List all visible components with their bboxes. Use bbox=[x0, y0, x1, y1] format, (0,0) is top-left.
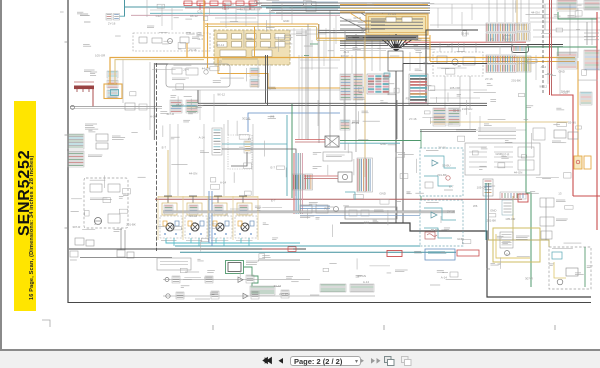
wire teal mid pair bbox=[286, 115, 288, 196]
connector stack left column bbox=[68, 134, 84, 149]
svg-text:2Y-16: 2Y-16 bbox=[274, 284, 282, 288]
svg-text:105-OR: 105-OR bbox=[95, 54, 105, 58]
svg-text:2Y-16: 2Y-16 bbox=[409, 117, 417, 121]
wire khaki x513 bbox=[512, 196, 514, 240]
pinlist box right-center bbox=[465, 143, 540, 175]
connector barrel bbox=[512, 45, 529, 53]
wire black bus y249 bbox=[69, 248, 306, 250]
page number input bbox=[290, 356, 361, 366]
module block tan top-right bbox=[366, 14, 428, 35]
junction box bbox=[388, 51, 403, 71]
button previous-page bbox=[279, 358, 284, 364]
ruler tick 3 bbox=[554, 325, 556, 330]
wire orange double bus right bbox=[317, 37, 430, 39]
svg-text:2Y-16: 2Y-16 bbox=[438, 145, 446, 149]
injector module 4 bbox=[242, 196, 244, 203]
connector ECX label bbox=[80, 13, 88, 15]
connector box right-mid bbox=[502, 200, 513, 215]
wire blue pair vertical bbox=[208, 191, 210, 243]
svg-text:13: 13 bbox=[558, 192, 562, 196]
wire teal pair top bbox=[150, 12, 340, 14]
button last-page (disabled) bbox=[371, 358, 381, 364]
svg-text:307-R: 307-R bbox=[525, 276, 533, 280]
wire cyan injector drops bbox=[165, 238, 167, 243]
svg-text:44-GN: 44-GN bbox=[531, 10, 540, 14]
wire gray horiz right top bbox=[430, 3, 600, 5]
svg-text:GND: GND bbox=[379, 192, 385, 196]
svg-text:GND: GND bbox=[495, 152, 501, 156]
wire droppers bbox=[161, 5, 163, 26]
svg-text:C12: C12 bbox=[197, 10, 203, 14]
wire orange drop right bbox=[577, 61, 579, 156]
wire gray bus y90 bbox=[172, 89, 340, 91]
wire teal bend mid bbox=[222, 143, 287, 145]
wire tan y122 right bbox=[430, 121, 568, 123]
svg-text:2Y-16: 2Y-16 bbox=[485, 77, 493, 81]
pin list right of block1 bbox=[293, 28, 295, 58]
button previous-document bbox=[0, 351, 600, 368]
red cluster verticals bbox=[199, 3, 201, 10]
wire cyan bus 2 bbox=[175, 245, 420, 247]
connector stripe horizontal right-mid bbox=[500, 192, 526, 199]
svg-text:J1-4: J1-4 bbox=[197, 37, 203, 41]
border tick y135 bbox=[65, 134, 69, 136]
component teal small y123 bbox=[340, 120, 350, 130]
wire maroon bus bbox=[155, 198, 522, 200]
wire black dashed x543 bbox=[542, 0, 544, 95]
svg-text:44-GN: 44-GN bbox=[357, 274, 366, 278]
connector teal pair below ECM bbox=[250, 68, 259, 77]
wire black bus into fan bbox=[340, 40, 390, 42]
wire pair left low bbox=[120, 228, 122, 250]
wire black bus y64 bbox=[155, 52, 241, 64]
component relay mid bbox=[338, 172, 352, 182]
harness stripe blocks right tall bbox=[357, 158, 365, 192]
module dotted box mid bbox=[228, 135, 252, 169]
svg-text:307-R: 307-R bbox=[341, 54, 349, 58]
svg-text:9X-12: 9X-12 bbox=[189, 214, 197, 218]
svg-text:55-BU: 55-BU bbox=[568, 121, 576, 125]
wire blue mid y113 bbox=[248, 113, 340, 132]
connector stacks center D bbox=[340, 74, 351, 100]
pinlist rows above bbox=[478, 127, 516, 129]
spine title SENR5252 bbox=[14, 101, 36, 311]
component boxes right column bbox=[540, 198, 554, 207]
connector stripe vertical x483 bbox=[483, 179, 493, 196]
book spine SENR5252 bbox=[14, 101, 36, 311]
wire black bend mid bbox=[222, 149, 296, 196]
wire drops to stacks A bbox=[488, 0, 490, 22]
component red box bottom 1 bbox=[387, 251, 402, 257]
wire orange main loop bbox=[110, 0, 204, 84]
svg-text:E-7: E-7 bbox=[449, 185, 454, 189]
red connector row top bbox=[184, 1, 192, 6]
component left margin bottom bbox=[70, 251, 78, 257]
svg-text:55-BU: 55-BU bbox=[442, 163, 450, 167]
border tick y228 bbox=[65, 227, 69, 229]
wire red y42 bbox=[404, 41, 526, 43]
svg-text:201-BK: 201-BK bbox=[126, 223, 136, 227]
wire teal main y7 bbox=[125, 6, 341, 8]
svg-text:44-GN: 44-GN bbox=[360, 27, 369, 31]
wire bundle diagonals bbox=[382, 13, 412, 34]
svg-text:201-BK: 201-BK bbox=[561, 90, 571, 94]
svg-text:J1-4: J1-4 bbox=[540, 65, 546, 69]
connector block right B bbox=[486, 55, 516, 64]
border tick y42 bbox=[65, 41, 69, 43]
svg-text:W6: W6 bbox=[473, 204, 478, 208]
wire red segment bottom bbox=[262, 248, 293, 250]
svg-text:55-BU: 55-BU bbox=[461, 31, 469, 35]
harness row 1 bbox=[163, 279, 310, 281]
svg-text:201-BK: 201-BK bbox=[487, 218, 497, 222]
wire vertical main x155 bbox=[153, 63, 155, 140]
svg-text:105-OR: 105-OR bbox=[477, 186, 487, 190]
wire green step path bbox=[244, 267, 259, 286]
module dashed box bottom-right bbox=[549, 247, 591, 289]
wire gray x470 bbox=[469, 76, 471, 108]
wire black x198 stub bbox=[197, 90, 199, 103]
svg-text:2Y-16: 2Y-16 bbox=[189, 48, 197, 52]
relay box mid bbox=[345, 207, 397, 219]
wire orange x430 bbox=[429, 35, 431, 61]
svg-text:201-BK: 201-BK bbox=[437, 173, 447, 177]
black frame box right of junction bbox=[426, 30, 478, 103]
wire black y63 right of box bbox=[403, 63, 487, 65]
wire blue pair low bbox=[300, 205, 330, 207]
icon page-layout 2 (disabled) bbox=[402, 357, 412, 366]
svg-text:44-GN: 44-GN bbox=[189, 171, 198, 175]
wire gray pair x299 bbox=[298, 55, 300, 139]
wire gray mid horizontals bbox=[300, 59, 340, 61]
wire blue y215 bbox=[300, 215, 420, 217]
wire black y257 bbox=[80, 257, 172, 259]
svg-text:105-OR: 105-OR bbox=[450, 86, 460, 90]
wire red pair to relay bbox=[295, 139, 325, 141]
wire tan x365 down bbox=[364, 35, 366, 177]
wire green stubs teal boxes bbox=[420, 130, 422, 148]
wire drops top-left of block bbox=[257, 7, 259, 30]
wire teal ECX branch bbox=[120, 15, 126, 17]
relay label box bbox=[323, 152, 352, 161]
wire orange left edge block1 bbox=[207, 23, 209, 68]
svg-text:C12: C12 bbox=[156, 14, 162, 18]
connector stripe column mid bbox=[212, 128, 222, 155]
injector module 1 bbox=[167, 196, 169, 203]
wire drops dashed box right bbox=[439, 43, 441, 52]
terminal grid block bbox=[367, 74, 389, 94]
toolbar bbox=[0, 351, 600, 368]
wire black double right of box bbox=[403, 44, 563, 46]
component small boxes left low bbox=[75, 238, 84, 245]
svg-text:E-7: E-7 bbox=[506, 253, 511, 257]
junction wire fan bbox=[378, 34, 414, 51]
svg-text:9X-12: 9X-12 bbox=[190, 14, 198, 18]
wire junction stem bbox=[395, 71, 397, 223]
connector stack E bbox=[433, 108, 446, 126]
injector cell separators bbox=[157, 196, 159, 240]
wire green mid bbox=[291, 104, 293, 198]
connector plugs ECX bbox=[106, 14, 112, 21]
svg-text:E-7: E-7 bbox=[271, 199, 276, 203]
connector stack mid y100 bbox=[170, 100, 182, 113]
svg-text:P2: P2 bbox=[406, 97, 410, 101]
wire bus group y24 bbox=[340, 20, 385, 22]
svg-text:A-14: A-14 bbox=[220, 181, 226, 185]
svg-text:55-BU: 55-BU bbox=[453, 109, 461, 113]
wire black x403 down bbox=[402, 64, 404, 224]
svg-text:P2: P2 bbox=[301, 5, 305, 9]
svg-text:307-R: 307-R bbox=[166, 112, 174, 116]
connector blocks right edge bbox=[557, 52, 577, 69]
svg-text:E-7: E-7 bbox=[162, 146, 167, 150]
module box dashed left bbox=[84, 178, 128, 228]
icon page-layout 1 bbox=[385, 357, 395, 366]
wire black x587 top bbox=[586, 22, 588, 45]
svg-text:P2: P2 bbox=[490, 38, 494, 42]
wire tan feeder x517 bbox=[516, 0, 518, 23]
svg-text:44-GN: 44-GN bbox=[388, 12, 397, 16]
relay K5 green loop bbox=[226, 261, 244, 274]
wire teal bend harness bbox=[345, 192, 355, 200]
svg-text:105-OR: 105-OR bbox=[505, 217, 515, 221]
svg-text:GND: GND bbox=[457, 237, 463, 241]
svg-text:A-14: A-14 bbox=[441, 275, 447, 279]
injector module 3 bbox=[217, 196, 219, 203]
module box dashed A1 bbox=[133, 33, 210, 51]
svg-text:44-GN: 44-GN bbox=[202, 67, 211, 71]
wire black pair from block1 bbox=[265, 55, 267, 103]
component box bottom-left bbox=[157, 258, 191, 270]
wire verticals center top extra bbox=[371, 40, 373, 71]
wire gray x147 top bbox=[146, 0, 148, 17]
harness row 2 bbox=[163, 295, 375, 297]
wire tan feeders bbox=[167, 150, 169, 203]
wire verticals far right top bbox=[544, 4, 546, 30]
svg-text:13: 13 bbox=[446, 44, 450, 48]
viewer left edge bbox=[0, 0, 2, 351]
svg-text:307-R: 307-R bbox=[72, 225, 80, 229]
svg-text:E-7: E-7 bbox=[271, 166, 276, 170]
connector blocks top-right corner bbox=[557, 0, 577, 11]
component small right column bbox=[554, 130, 566, 138]
micro text right column bbox=[584, 32, 599, 34]
module box tan bottom-right bbox=[493, 228, 540, 262]
wire teal harness right bbox=[340, 142, 400, 144]
svg-text:2Y-16: 2Y-16 bbox=[108, 22, 116, 26]
sheet left border bbox=[67, 0, 69, 303]
wire dark pair y129 bbox=[420, 128, 476, 130]
svg-text:307-R: 307-R bbox=[242, 116, 250, 120]
text block left margin bbox=[85, 123, 97, 125]
svg-text:55-BU: 55-BU bbox=[431, 228, 439, 232]
svg-text:210-WH: 210-WH bbox=[462, 107, 473, 111]
svg-text:9X-12: 9X-12 bbox=[216, 43, 224, 47]
wire bottom links bbox=[258, 259, 300, 261]
svg-text:A-14: A-14 bbox=[150, 114, 156, 118]
svg-text:13: 13 bbox=[224, 213, 228, 217]
wire orange step down x317 bbox=[316, 27, 318, 41]
svg-text:2Y-16: 2Y-16 bbox=[351, 121, 359, 125]
wire red far right bbox=[596, 12, 598, 230]
injector module 2 bbox=[192, 196, 194, 203]
svg-text:44-GN: 44-GN bbox=[514, 171, 523, 175]
sensor module teal dashed 2 bbox=[420, 200, 463, 246]
svg-text:P2: P2 bbox=[193, 221, 197, 225]
lamp block orange right bbox=[574, 156, 582, 169]
wire black bundle top bbox=[256, 2, 430, 4]
connector block right A bbox=[486, 23, 516, 32]
wire gray verticals harness bbox=[305, 30, 307, 139]
wire teal vertical x124 bbox=[124, 0, 126, 17]
svg-text:2Y-16: 2Y-16 bbox=[447, 210, 455, 214]
wire gray verticals left cluster bbox=[122, 59, 124, 103]
wire tan bus above injectors bbox=[158, 196, 258, 198]
module box dashed right bbox=[433, 52, 483, 76]
svg-text:9X-12: 9X-12 bbox=[176, 103, 184, 107]
wire bus y25 right bbox=[430, 24, 526, 26]
harness stripe blocks left bbox=[293, 174, 304, 190]
connector bar dark under block bbox=[346, 35, 418, 40]
gray bus y107 bbox=[70, 106, 162, 108]
wire dark teal bus y252 bbox=[180, 251, 456, 253]
svg-text:GND: GND bbox=[283, 19, 289, 23]
wire dark yellow bend bbox=[488, 240, 549, 247]
harness wire bundle vertical bbox=[293, 153, 295, 214]
sensor module teal dashed 1 bbox=[420, 148, 463, 196]
wire gray verticals center bbox=[307, 24, 309, 140]
wire orange bus y57 right bbox=[204, 57, 575, 59]
relay X top bbox=[325, 136, 339, 147]
svg-text:201-BK: 201-BK bbox=[511, 78, 521, 82]
wire red pair right bbox=[549, 0, 551, 95]
injector feeder verticals bbox=[169, 124, 171, 196]
wire teal y106 bbox=[172, 105, 198, 107]
resistor block R row bbox=[147, 25, 154, 27]
light stripe rows near fan bbox=[340, 48, 430, 50]
wire black double y104 bbox=[198, 102, 487, 104]
ruler tick 1 bbox=[212, 325, 214, 330]
wire green harness to sensor bbox=[340, 140, 421, 142]
wire orange bus y61 bbox=[430, 61, 575, 63]
connector green block b1 bbox=[250, 286, 275, 295]
component red box bottom 2 bbox=[457, 250, 479, 256]
svg-text:13: 13 bbox=[457, 64, 461, 68]
wire green loop top-right bbox=[526, 12, 597, 287]
ladder block colored bbox=[409, 74, 428, 105]
svg-text:P2: P2 bbox=[324, 207, 328, 211]
svg-text:307-R: 307-R bbox=[353, 16, 361, 20]
svg-text:A-14: A-14 bbox=[199, 136, 205, 140]
wire horiz fills top band bbox=[215, 17, 256, 19]
wire orange inner pair bbox=[115, 60, 204, 84]
component maroon bar K1 bbox=[74, 86, 94, 90]
relay orange loop bbox=[104, 84, 122, 99]
svg-text:210-WH: 210-WH bbox=[279, 292, 290, 296]
module rounded box mid-left bbox=[166, 64, 230, 87]
wire red pair mid bbox=[304, 175, 338, 177]
component green marks mid-top bbox=[310, 43, 318, 45]
connector stack left margin column bbox=[107, 71, 118, 78]
sheet bottom border bbox=[68, 302, 591, 304]
texture marks bbox=[188, 47, 201, 49]
svg-text:13: 13 bbox=[218, 59, 222, 63]
svg-text:C12: C12 bbox=[364, 220, 370, 224]
svg-text:A-14: A-14 bbox=[363, 280, 369, 284]
svg-text:13: 13 bbox=[248, 137, 252, 141]
svg-text:J1-4: J1-4 bbox=[183, 67, 189, 71]
component red end cap bbox=[518, 194, 528, 202]
registration mark bottom-left bbox=[42, 320, 50, 327]
svg-text:P2: P2 bbox=[486, 267, 490, 271]
viewer bottom edge bbox=[0, 349, 600, 351]
wire black pair y31 bbox=[318, 30, 428, 32]
svg-text:GND: GND bbox=[490, 209, 496, 213]
wire orange branch x187 bbox=[186, 43, 188, 57]
component blue box bottom bbox=[425, 249, 455, 260]
wire orange bundle top bbox=[340, 4, 428, 6]
svg-text:307-R: 307-R bbox=[501, 153, 509, 157]
wire cyan bus 1 bbox=[166, 240, 300, 243]
bus wide gray y212 bbox=[163, 211, 455, 213]
wire black step bottom-right bbox=[340, 223, 591, 297]
wire orange drop x268 bbox=[218, 58, 340, 88]
micro rows blue top bbox=[272, 1, 338, 3]
wire teal double down bbox=[485, 183, 487, 240]
svg-text:9X-12: 9X-12 bbox=[217, 93, 225, 97]
wire red corner right bbox=[573, 195, 600, 197]
svg-text:GND: GND bbox=[558, 70, 564, 74]
wire orange double bus block1 bbox=[205, 23, 318, 25]
ruler tick 2 bbox=[383, 325, 385, 330]
svg-text:GND: GND bbox=[380, 142, 386, 146]
bottom extra marks bbox=[395, 269, 408, 271]
svg-text:9X-12: 9X-12 bbox=[539, 85, 547, 89]
component boxes left bbox=[96, 134, 108, 141]
button next-page (disabled) bbox=[360, 358, 365, 364]
connector green row bbox=[320, 284, 346, 292]
module ECM block tan bbox=[214, 30, 290, 65]
component row below harness bbox=[300, 205, 312, 213]
wire orange drop x254 bbox=[254, 27, 256, 58]
